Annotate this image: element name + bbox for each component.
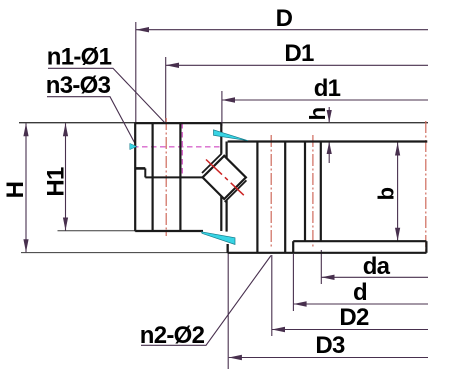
dimension D1 line <box>166 57 428 122</box>
svg-text:d1: d1 <box>314 75 341 102</box>
red centerline n2 hole x=271 <box>270 135 272 249</box>
dimension d1 line <box>222 91 428 126</box>
extension line H bottom y=252.5 <box>21 252 228 254</box>
leader n3 <box>47 97 135 144</box>
svg-text:H1: H1 <box>43 167 70 197</box>
svg-text:h: h <box>305 107 330 120</box>
outer ring split seam and notch <box>135 168 203 177</box>
top seal (cyan) <box>214 130 249 141</box>
magenta pin hole line vertical <box>181 123 183 176</box>
magenta grease hole centerline horizontal <box>133 146 222 148</box>
dimension b <box>395 143 400 241</box>
svg-text:n1-Ø1: n1-Ø1 <box>47 44 112 71</box>
bottom seal (cyan) <box>202 232 236 245</box>
svg-text:da: da <box>363 253 391 280</box>
svg-text:b: b <box>374 187 399 200</box>
dimension H1 <box>63 123 68 230</box>
n3 leader cyan arrowhead <box>130 143 137 149</box>
inner ring raceway diagonal <box>225 180 247 202</box>
dimension h <box>327 107 332 163</box>
svg-text:d: d <box>353 279 367 306</box>
svg-text:D: D <box>276 5 293 32</box>
dimension d <box>293 254 428 311</box>
red centerline flange hole x=313 <box>312 135 314 247</box>
leader n1 <box>48 68 166 124</box>
dimension D line <box>136 22 428 122</box>
roller (cross section square) <box>203 156 246 199</box>
outer ring raceway diagonal <box>202 154 222 173</box>
svg-text:n3-Ø3: n3-Ø3 <box>46 72 111 99</box>
svg-text:D3: D3 <box>315 332 345 359</box>
inner ring (right) body <box>227 142 428 253</box>
svg-text:H: H <box>2 182 29 199</box>
dimension da <box>321 250 428 284</box>
outer ring (left) body <box>135 122 221 231</box>
extension line top surface y=123 <box>19 122 428 124</box>
leader n2 <box>141 256 271 346</box>
dimension H <box>23 123 28 252</box>
svg-text:D1: D1 <box>284 40 314 67</box>
extension line H1 bottom y=230.7 <box>58 230 137 232</box>
red centerline n1 hole x=166 <box>165 118 167 236</box>
svg-text:n2-Ø2: n2-Ø2 <box>140 322 205 349</box>
dimension D2 <box>272 255 428 336</box>
red axis line x=425.8 <box>425 121 427 253</box>
svg-text:D2: D2 <box>339 304 369 331</box>
dimension D3 <box>228 244 428 369</box>
roller axis red centerline <box>206 160 244 196</box>
